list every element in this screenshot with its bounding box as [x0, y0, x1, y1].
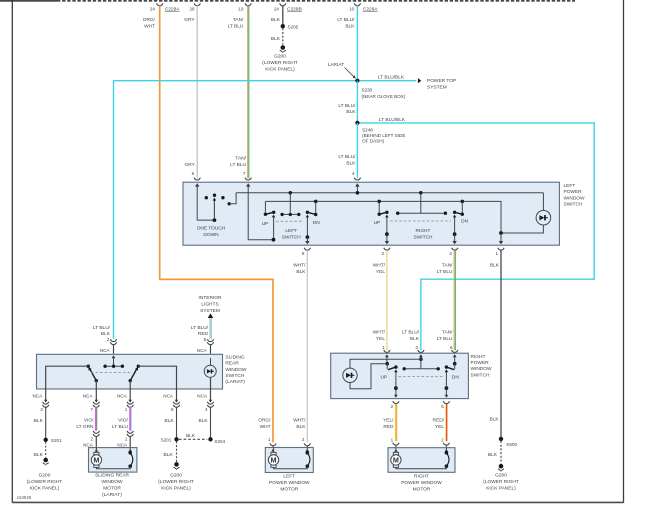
svg-text:10: 10	[349, 7, 355, 12]
svg-text:SLIDING: SLIDING	[225, 354, 244, 360]
sliding switch right arm exit wire to pin 1	[129, 381, 131, 402]
svg-text:153929: 153929	[17, 495, 32, 500]
svg-text:MOTOR: MOTOR	[413, 487, 431, 493]
svg-text:NCA: NCA	[163, 393, 174, 398]
svg-text:7: 7	[243, 171, 246, 176]
svg-text:LT BLU/: LT BLU/	[191, 325, 209, 331]
connector C229B pin 24 (BLK)	[271, 3, 302, 23]
ground G200 (lower right kick panel) bottom right	[483, 464, 519, 492]
left box pin 8 cup and number	[302, 248, 311, 256]
wire LT BLU/BLK from C229A pin 10 down to splice S230	[356, 6, 358, 81]
svg-text:ORG/: ORG/	[258, 418, 271, 424]
right box up contact	[387, 364, 398, 398]
svg-text:1: 1	[125, 436, 128, 441]
svg-text:NCA: NCA	[117, 393, 128, 398]
svg-text:POWER: POWER	[471, 360, 490, 366]
connector C229A pin 10 (LT BLU/BLK)	[337, 3, 378, 29]
sliding switch left feed and exit wire to pin 3	[46, 366, 88, 401]
label UP right switch (left box)	[374, 220, 381, 226]
top harness bar dashed segment	[57, 0, 575, 2]
sliding switch right feed and exit wire to pin 8	[138, 366, 176, 401]
pin 1 node and exit arrow (left box)	[499, 231, 503, 244]
svg-text:1: 1	[125, 407, 128, 412]
svg-text:OF DASH): OF DASH)	[362, 138, 384, 143]
svg-text:WINDOW: WINDOW	[101, 479, 123, 485]
svg-text:SYSTEM: SYSTEM	[427, 85, 447, 91]
sliding box pin 7 inline connector, NCA, number	[83, 393, 100, 412]
svg-text:POWER: POWER	[564, 189, 583, 195]
sliding switch right contact arm	[129, 365, 141, 383]
svg-text:LT BLU/: LT BLU/	[93, 325, 111, 331]
svg-text:SWITCH: SWITCH	[282, 234, 301, 240]
sliding motor internal wiring and commutator arc	[95, 448, 133, 469]
sliding rear window motor symbol	[91, 452, 101, 467]
label LEFT POWER WINDOW SWITCH	[564, 183, 586, 208]
sliding switch left arm exit wire to pin 7	[95, 381, 97, 402]
svg-text:BLK: BLK	[296, 269, 306, 275]
right power window switch box	[331, 353, 469, 398]
wire LT BLU/BLK from S248 down to left power window switch pin 4	[338, 123, 357, 178]
svg-text:TAN/: TAN/	[442, 330, 453, 336]
svg-text:G200: G200	[39, 473, 51, 479]
sliding box pin 1 inline connector, NCA, number	[117, 393, 133, 412]
svg-text:BLK: BLK	[490, 416, 500, 422]
label TAN/LT BLU and pin 7 above left power window switch	[230, 156, 251, 181]
svg-text:BLK: BLK	[199, 418, 209, 424]
svg-text:S204: S204	[214, 439, 225, 444]
wire bus to illumination lamp top	[542, 193, 544, 211]
svg-text:SLIDING REAR: SLIDING REAR	[95, 473, 129, 479]
svg-text:BLK: BLK	[490, 263, 500, 269]
svg-text:WHT/: WHT/	[293, 263, 306, 269]
wire LT BLU/BLK branch from S230 to power top system arrow	[357, 75, 416, 81]
label LEFT SWITCH	[282, 228, 301, 241]
svg-text:NCA: NCA	[117, 442, 128, 447]
right box illumination lamp	[343, 368, 357, 382]
svg-text:BLK: BLK	[345, 24, 355, 30]
svg-text:S201: S201	[51, 438, 62, 443]
sliding switch illumination lamp between pin 5 and pin 4	[204, 358, 216, 401]
svg-text:BLK: BLK	[346, 109, 356, 115]
right switch dn contact (left box)	[452, 201, 464, 244]
label SLIDING REAR WINDOW MOTOR (LARIAT)	[95, 473, 129, 499]
lamp top wire to pin 3 bus	[350, 359, 421, 368]
wire BLK dashed from S205 to ground G200	[271, 28, 283, 44]
svg-text:LT BLU/: LT BLU/	[337, 17, 355, 23]
label UP left switch	[262, 221, 269, 227]
left box pin 3 cup and number	[449, 248, 458, 256]
svg-text:(BEHIND LEFT SIDE: (BEHIND LEFT SIDE	[362, 133, 405, 138]
right box dn contact	[445, 364, 455, 398]
ground G200 (lower right kick panel) bottom middle	[158, 462, 194, 491]
right power window motor symbol	[391, 452, 401, 467]
wire BLK from C229B pin 24 to splice S205	[282, 6, 284, 25]
sliding switch pin 5 inline connector and pigtail	[197, 339, 214, 353]
svg-text:GRY: GRY	[184, 162, 195, 168]
svg-text:5: 5	[441, 404, 444, 409]
svg-text:ONE TOUCH: ONE TOUCH	[197, 226, 226, 232]
wire VIO/LT BLU from sliding switch pin 1 to motor pin 1	[112, 407, 131, 431]
svg-text:MOTOR: MOTOR	[103, 486, 121, 492]
svg-text:LT GRN: LT GRN	[76, 424, 94, 430]
left switch dn contact	[305, 201, 317, 244]
svg-text:LT BLU/: LT BLU/	[402, 330, 420, 336]
wire BLK dashed from S500 to ground	[488, 441, 501, 464]
svg-text:LT BLU/: LT BLU/	[338, 154, 356, 160]
svg-text:GRY: GRY	[184, 17, 195, 23]
wire ORG/WHT from C229A pin 24 down, right, to left power window motor pin 1	[160, 6, 273, 443]
label pin 4 above left power window switch	[352, 171, 361, 180]
svg-text:DN: DN	[452, 374, 459, 380]
svg-text:ORG/: ORG/	[143, 17, 156, 23]
left switch mechanical link dashed	[276, 220, 304, 222]
svg-text:G200: G200	[495, 473, 507, 479]
svg-text:8: 8	[302, 251, 305, 256]
second bus (up contacts feed)	[265, 200, 501, 233]
svg-text:LT BLU: LT BLU	[437, 336, 453, 342]
right switch rocker bar (left box)	[396, 193, 447, 215]
svg-text:M: M	[271, 456, 277, 465]
label RIGHT SWITCH (left box)	[414, 228, 433, 241]
label SLIDING REAR WINDOW SWITCH (LARIAT)	[225, 354, 247, 385]
svg-text:WHT/: WHT/	[293, 418, 306, 424]
svg-text:1: 1	[496, 251, 499, 256]
arrow to INTERIOR LIGHTS SYSTEM	[199, 295, 222, 318]
svg-text:RED: RED	[198, 331, 209, 337]
diagram number 153929	[17, 495, 32, 500]
pin 7 entry arrow and wire to left switch up arm	[246, 183, 272, 240]
sliding box pin 8 inline connector, NCA, number	[163, 393, 179, 412]
svg-text:WHT/: WHT/	[373, 330, 386, 336]
svg-text:4: 4	[205, 407, 208, 412]
svg-text:LEFT: LEFT	[285, 228, 297, 234]
label RIGHT POWER WINDOW MOTOR	[401, 474, 442, 493]
wire BLK dashed from S201 down to ground	[164, 441, 177, 462]
svg-text:24: 24	[274, 7, 280, 12]
svg-text:YEL: YEL	[435, 424, 444, 430]
label GRY and pin 6 above left power window switch	[184, 162, 200, 180]
splice S205	[281, 24, 299, 29]
label RIGHT POWER WINDOW SWITCH	[471, 354, 493, 379]
svg-text:LT BLU: LT BLU	[230, 162, 246, 168]
svg-text:BLK: BLK	[271, 17, 281, 23]
svg-text:S205: S205	[288, 24, 299, 29]
svg-text:RED: RED	[383, 424, 394, 430]
svg-text:RIGHT: RIGHT	[471, 354, 486, 360]
splice S248 (behind left side of dash)	[355, 121, 405, 144]
svg-text:M: M	[393, 456, 399, 465]
svg-text:BLK: BLK	[296, 424, 306, 430]
sliding switch pin 2 entry arrow and rocker bar	[103, 355, 124, 368]
svg-text:LIGHTS: LIGHTS	[201, 302, 218, 308]
right box rocker bar	[403, 359, 440, 370]
svg-text:S248: S248	[362, 127, 373, 132]
label LT BLU/BLK and pin 3 above right power window switch	[402, 330, 424, 353]
page border right	[623, 0, 625, 503]
svg-text:REAR: REAR	[225, 361, 239, 367]
svg-text:(LARIAT): (LARIAT)	[225, 379, 245, 385]
label DN right box	[452, 374, 459, 380]
svg-text:BLK: BLK	[34, 452, 44, 458]
svg-text:INTERIOR: INTERIOR	[199, 295, 222, 301]
svg-text:1: 1	[391, 437, 394, 442]
right motor pin 2 cup and number	[441, 437, 449, 447]
svg-text:28: 28	[189, 7, 195, 12]
ground G200 (lower right kick panel) bottom left	[27, 458, 63, 492]
svg-text:WHT: WHT	[260, 424, 271, 430]
svg-text:WINDOW: WINDOW	[471, 366, 493, 372]
svg-text:UP: UP	[374, 220, 381, 226]
left box pin 1 cup and number	[496, 248, 505, 256]
right box pin 3 entry arrow onto lamp bus	[419, 354, 423, 361]
svg-text:WINDOW: WINDOW	[225, 367, 247, 373]
svg-text:NCA: NCA	[197, 348, 208, 353]
svg-text:BLK: BLK	[101, 331, 111, 337]
wire WHT/YEL from left box pin 2 to right power window switch pin 1	[373, 250, 387, 350]
svg-text:TAN/: TAN/	[235, 156, 246, 162]
svg-text:TAN/: TAN/	[442, 263, 453, 269]
label LARIAT with leader arrow to S230	[328, 62, 356, 79]
svg-text:(LOWER RIGHT: (LOWER RIGHT	[262, 60, 298, 66]
svg-text:WHT/: WHT/	[373, 263, 386, 269]
splice S204	[208, 437, 225, 444]
wire LT BLU/BLK from S230 down to splice S248	[338, 81, 357, 123]
svg-text:24: 24	[150, 7, 156, 12]
svg-text:KICK PANEL): KICK PANEL)	[265, 67, 295, 73]
svg-text:LT BLU/: LT BLU/	[338, 103, 356, 109]
left power window motor symbol	[268, 452, 278, 467]
svg-text:POWER TOP: POWER TOP	[427, 78, 456, 84]
svg-text:2: 2	[90, 436, 93, 441]
wire BLK dashed from S201 to S204	[179, 433, 207, 439]
label ONE TOUCH DOWN	[197, 226, 226, 239]
svg-text:KICK PANEL): KICK PANEL)	[161, 486, 191, 492]
svg-text:LEFT: LEFT	[564, 183, 576, 189]
svg-text:BLK: BLK	[186, 433, 196, 439]
label DN right switch (left box)	[461, 219, 468, 225]
sliding rear window motor box	[89, 448, 137, 473]
one touch down relay contacts and arm	[205, 194, 225, 223]
svg-text:LARIAT: LARIAT	[328, 62, 345, 68]
svg-text:BLK: BLK	[34, 418, 44, 424]
wire TAN/LT BLU from left box pin 3 to right power window switch pin 6	[437, 250, 456, 350]
wire VIO/LT GRN from sliding switch pin 7 to motor pin 2	[76, 407, 97, 431]
svg-text:VIO/: VIO/	[84, 418, 94, 424]
svg-text:NCA: NCA	[197, 393, 208, 398]
wire YEL/RED from right box pin 2 to right motor pin 1	[383, 404, 397, 441]
splice S230 (near glove box)	[355, 79, 406, 99]
svg-text:7: 7	[90, 407, 93, 412]
svg-text:3: 3	[415, 345, 418, 350]
svg-text:(LOWER RIGHT: (LOWER RIGHT	[158, 479, 194, 485]
svg-text:2: 2	[302, 437, 305, 442]
wire LT BLU/RED from interior lights system to sliding rear window switch pin 5	[191, 318, 212, 342]
supply bus of left power window switch	[236, 191, 543, 195]
svg-text:10: 10	[238, 7, 244, 12]
wire LT BLU/BLK into sliding rear window switch pin 2	[93, 81, 114, 343]
left power window motor box	[265, 448, 313, 473]
sliding box pin 3 inline connector, NCA, number	[32, 393, 48, 412]
sliding box pin 4 inline connector, NCA, number	[197, 393, 213, 412]
svg-text:1: 1	[382, 345, 385, 350]
svg-text:POWER WINDOW: POWER WINDOW	[401, 480, 442, 486]
right switch mechanical link dashed (left box)	[390, 220, 451, 222]
svg-text:RED/: RED/	[433, 418, 445, 424]
svg-text:1: 1	[268, 437, 271, 442]
svg-text:BLK: BLK	[164, 452, 174, 458]
label pin 1 above right power window switch	[382, 345, 390, 352]
wire WHT/BLK from left box pin 8 to left power window motor pin 2	[293, 250, 307, 442]
svg-text:SWITCH: SWITCH	[414, 234, 433, 240]
pin 4 entry arrow onto supply bus	[355, 183, 359, 193]
splice S201 (second)	[161, 437, 179, 442]
svg-text:SWITCH: SWITCH	[225, 373, 244, 379]
svg-text:6: 6	[192, 171, 195, 176]
svg-text:5: 5	[204, 337, 207, 342]
svg-text:2: 2	[381, 251, 384, 256]
right box pin 6 entry arrow and wire to dn contact	[453, 354, 457, 365]
svg-text:VIO/: VIO/	[118, 418, 128, 424]
svg-text:S230: S230	[362, 88, 373, 93]
svg-text:(NEAR GLOVE BOX): (NEAR GLOVE BOX)	[362, 94, 406, 99]
right motor internal wiring and commutator arc	[394, 448, 449, 469]
svg-text:NCA: NCA	[83, 393, 94, 398]
svg-text:BLK: BLK	[488, 452, 498, 458]
wire BLK from sliding switch pin 4 to splice S204	[199, 407, 211, 438]
svg-text:BLK: BLK	[165, 418, 175, 424]
left motor internal wiring and commutator arc	[271, 448, 310, 469]
svg-text:KICK PANEL): KICK PANEL)	[30, 486, 60, 492]
svg-text:8: 8	[171, 407, 174, 412]
label pin 6 above right power window switch	[450, 345, 458, 352]
svg-text:SWITCH: SWITCH	[564, 202, 583, 208]
ground G200 (lower right kick panel) top	[262, 45, 298, 72]
right power window motor box	[388, 448, 455, 473]
wire TAN/LT BLU from pin 10 down to left power window switch pin 7	[248, 6, 249, 178]
right motor pin 1 cup and number	[391, 437, 399, 447]
lamp bottom wire loop to pin 1 node	[350, 364, 386, 389]
right box pin 1 entry arrow and wire to up contact	[385, 354, 389, 365]
svg-text:DN: DN	[313, 220, 320, 226]
svg-text:BLK: BLK	[271, 36, 281, 42]
right box pin 5 cup and number	[441, 401, 449, 409]
arrow to POWER TOP SYSTEM	[418, 78, 456, 91]
right switch up contact (left box)	[378, 201, 390, 244]
svg-text:YEL/: YEL/	[383, 418, 394, 424]
wire BLK from sliding switch pin 3 to splice S201	[34, 407, 46, 438]
left motor pin 2 label and cup	[302, 437, 311, 447]
left box pin 2 cup and number	[381, 248, 390, 256]
lamp bottom wire to pin 1 node	[501, 225, 543, 233]
left switch up contact	[264, 201, 276, 241]
svg-text:UP: UP	[262, 221, 269, 227]
svg-text:(LOWER RIGHT: (LOWER RIGHT	[483, 479, 519, 485]
page border bottom	[12, 501, 623, 503]
left motor pin 1 label and cup	[258, 418, 276, 448]
svg-text:UP: UP	[380, 374, 387, 380]
svg-text:4: 4	[352, 171, 355, 176]
top harness bar solid segment	[0, 0, 57, 2]
svg-text:BLK: BLK	[346, 160, 356, 166]
svg-text:LEFT: LEFT	[283, 474, 295, 480]
wire LT BLU/BLK branch from S248 right and down to right power window switch pin 3	[357, 117, 594, 350]
left switch rocker bar	[280, 193, 300, 216]
svg-text:LT BLU/BLK: LT BLU/BLK	[379, 117, 406, 123]
svg-text:3: 3	[40, 407, 43, 412]
svg-text:POWER WINDOW: POWER WINDOW	[269, 480, 310, 486]
svg-text:LT BLU: LT BLU	[112, 424, 128, 430]
svg-text:G200: G200	[170, 473, 182, 479]
right box mechanical link dashed	[399, 375, 445, 377]
label UP right box	[380, 374, 387, 380]
svg-text:KICK PANEL): KICK PANEL)	[486, 486, 516, 492]
illumination lamp of left power window switch	[536, 210, 551, 225]
svg-text:NCA: NCA	[100, 348, 111, 353]
svg-text:LT BLU: LT BLU	[228, 24, 244, 30]
svg-text:6: 6	[450, 345, 453, 350]
svg-text:3: 3	[449, 251, 452, 256]
svg-text:YEL: YEL	[376, 269, 385, 275]
svg-text:NCA: NCA	[32, 393, 43, 398]
svg-text:NCA: NCA	[83, 442, 94, 447]
svg-text:WHT: WHT	[144, 24, 155, 30]
svg-text:(LARIAT): (LARIAT)	[102, 492, 122, 498]
connector pin 28 (GRY)	[184, 3, 200, 23]
wire LT BLU/BLK branch from S230 left to sliding rear window switch drop	[114, 80, 358, 82]
svg-text:DOWN: DOWN	[203, 232, 219, 238]
svg-text:S201: S201	[161, 438, 172, 443]
svg-text:WINDOW: WINDOW	[564, 195, 586, 201]
svg-text:SYSTEM: SYSTEM	[200, 308, 220, 314]
sliding motor pin 1 inline connector, number, NCA	[117, 431, 133, 448]
connector C229A pin 24 (ORG/WHT)	[143, 3, 181, 29]
svg-text:MOTOR: MOTOR	[280, 487, 298, 493]
svg-text:SWITCH: SWITCH	[471, 372, 490, 378]
svg-text:TAN/: TAN/	[233, 17, 244, 23]
pin 6 entry arrow and wire to one touch down relay	[195, 183, 213, 220]
wire RED/YEL from right box pin 5 to right motor pin 2	[433, 404, 447, 441]
svg-text:2: 2	[441, 437, 444, 442]
svg-text:S500: S500	[506, 442, 517, 447]
svg-text:2: 2	[107, 337, 110, 342]
sliding motor pin 2 inline connector, number, NCA	[83, 431, 99, 448]
wire BLK dashed from S201 to ground	[34, 442, 46, 458]
right box pin 2 cup and number	[391, 401, 399, 409]
sliding switch mechanical link dashed	[91, 372, 131, 374]
sliding switch left contact arm	[87, 365, 99, 383]
svg-text:LT BLU/BLK: LT BLU/BLK	[378, 75, 405, 81]
svg-text:BLK: BLK	[410, 336, 420, 342]
connector pin 10 (TAN/LT BLU)	[228, 3, 252, 29]
svg-text:(LOWER RIGHT: (LOWER RIGHT	[27, 479, 63, 485]
svg-text:YEL: YEL	[376, 336, 385, 342]
svg-text:M: M	[93, 456, 99, 465]
label DN left switch	[313, 220, 320, 226]
splice S500	[499, 437, 518, 448]
svg-text:G200: G200	[274, 54, 286, 60]
one touch down output to bus	[228, 193, 237, 206]
sliding switch pin 2 inline connector and pigtail	[100, 339, 117, 353]
svg-text:RIGHT: RIGHT	[416, 228, 431, 234]
splice S201	[44, 438, 63, 443]
label LEFT POWER WINDOW MOTOR	[269, 474, 310, 493]
page border left	[11, 0, 13, 503]
wire BLK from left box pin 1 to splice S500	[490, 250, 501, 437]
wire GRY from pin 28 down to left power window switch pin 6	[196, 6, 198, 178]
svg-text:2: 2	[391, 404, 394, 409]
sliding rear window switch box	[37, 354, 223, 389]
svg-text:RIGHT: RIGHT	[414, 474, 429, 480]
